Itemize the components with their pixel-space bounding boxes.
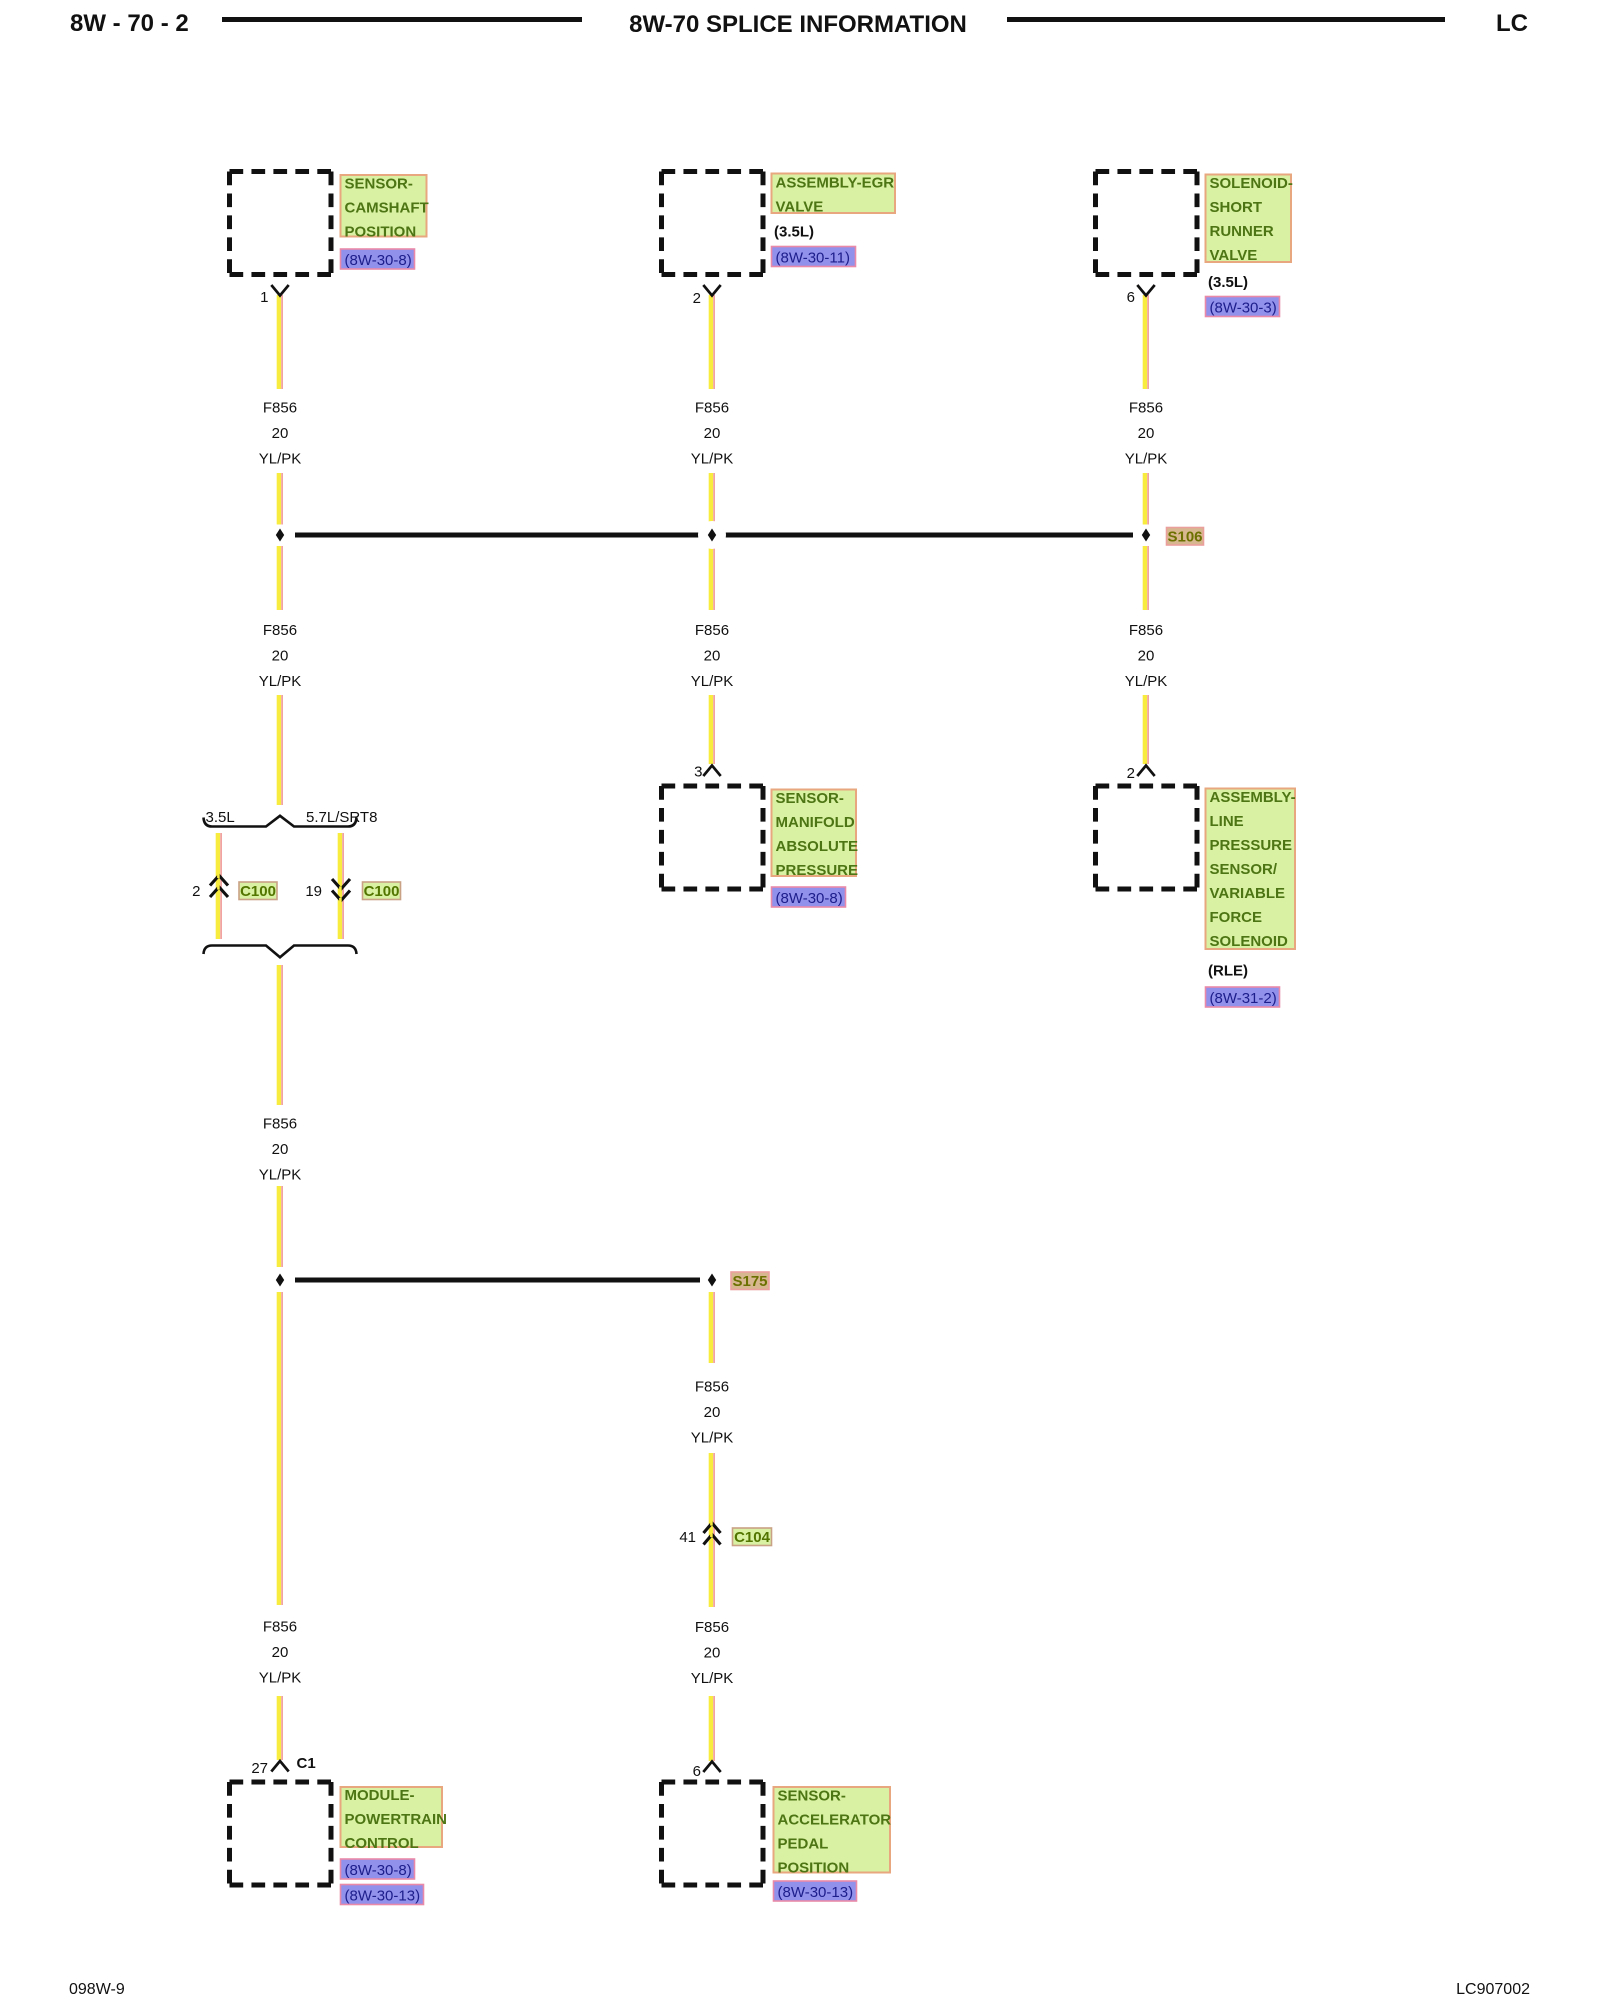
svg-text:ACCELERATOR: ACCELERATOR (778, 1812, 892, 1829)
svg-text:S175: S175 (732, 1273, 767, 1290)
svg-text:YL/PK: YL/PK (1125, 673, 1168, 690)
svg-text:C100: C100 (240, 883, 276, 900)
svg-text:(3.5L): (3.5L) (774, 224, 814, 241)
svg-text:(8W-30-8): (8W-30-8) (345, 1862, 412, 1879)
svg-text:YL/PK: YL/PK (259, 451, 302, 468)
svg-text:YL/PK: YL/PK (691, 451, 734, 468)
svg-text:POSITION: POSITION (778, 1860, 850, 1877)
svg-text:F856: F856 (263, 1116, 297, 1133)
svg-text:LINE: LINE (1210, 813, 1244, 830)
svg-text:27: 27 (251, 1760, 268, 1777)
svg-text:F856: F856 (263, 622, 297, 639)
svg-text:20: 20 (704, 1404, 721, 1421)
svg-text:2: 2 (192, 883, 200, 900)
svg-text:MODULE-: MODULE- (345, 1787, 415, 1804)
svg-text:YL/PK: YL/PK (691, 1670, 734, 1687)
svg-text:S106: S106 (1167, 529, 1202, 546)
svg-text:20: 20 (704, 425, 721, 442)
svg-text:20: 20 (272, 1644, 289, 1661)
svg-text:SOLENOID-: SOLENOID- (1210, 175, 1293, 192)
svg-text:VALVE: VALVE (776, 199, 824, 216)
svg-text:ASSEMBLY-EGR: ASSEMBLY-EGR (776, 175, 895, 192)
svg-text:SENSOR-: SENSOR- (778, 1788, 846, 1805)
svg-text:(8W-30-13): (8W-30-13) (778, 1884, 854, 1901)
svg-text:C104: C104 (734, 1529, 771, 1546)
svg-text:3.5L: 3.5L (206, 809, 235, 826)
svg-text:LC: LC (1496, 10, 1528, 37)
svg-text:(8W-30-8): (8W-30-8) (345, 252, 412, 269)
svg-text:F856: F856 (695, 400, 729, 417)
svg-text:SENSOR-: SENSOR- (776, 790, 844, 807)
svg-text:POSITION: POSITION (345, 224, 417, 241)
svg-text:CONTROL: CONTROL (345, 1835, 419, 1852)
svg-text:8W-70 SPLICE INFORMATION: 8W-70 SPLICE INFORMATION (629, 11, 967, 38)
svg-text:C100: C100 (364, 883, 400, 900)
svg-text:6: 6 (693, 1763, 701, 1780)
svg-text:(3.5L): (3.5L) (1208, 274, 1248, 291)
svg-text:F856: F856 (1129, 622, 1163, 639)
svg-text:41: 41 (679, 1529, 696, 1546)
svg-text:F856: F856 (695, 1379, 729, 1396)
svg-text:LC907002: LC907002 (1456, 1981, 1530, 1998)
svg-text:2: 2 (1127, 765, 1135, 782)
svg-text:MANIFOLD: MANIFOLD (776, 814, 855, 831)
svg-text:YL/PK: YL/PK (691, 1430, 734, 1447)
svg-text:SENSOR-: SENSOR- (345, 176, 413, 193)
svg-text:F856: F856 (695, 1619, 729, 1636)
svg-text:(8W-30-8): (8W-30-8) (776, 890, 843, 907)
svg-text:20: 20 (272, 425, 289, 442)
svg-text:ASSEMBLY-: ASSEMBLY- (1210, 789, 1296, 806)
svg-text:RUNNER: RUNNER (1210, 223, 1274, 240)
svg-text:(RLE): (RLE) (1208, 963, 1248, 980)
svg-text:20: 20 (704, 648, 721, 665)
svg-text:SENSOR/: SENSOR/ (1210, 861, 1278, 878)
svg-text:6: 6 (1127, 289, 1135, 306)
svg-text:098W-9: 098W-9 (69, 1981, 125, 1998)
svg-text:1: 1 (260, 289, 268, 306)
svg-text:ABSOLUTE: ABSOLUTE (776, 838, 859, 855)
svg-text:3: 3 (694, 764, 702, 781)
svg-text:C1: C1 (297, 1755, 316, 1772)
svg-text:(8W-30-13): (8W-30-13) (345, 1888, 421, 1905)
svg-text:8W - 70 - 2: 8W - 70 - 2 (70, 10, 189, 37)
svg-text:YL/PK: YL/PK (259, 673, 302, 690)
svg-text:CAMSHAFT: CAMSHAFT (345, 200, 429, 217)
svg-text:20: 20 (704, 1645, 721, 1662)
svg-text:2: 2 (693, 290, 701, 307)
svg-text:(8W-31-2): (8W-31-2) (1210, 990, 1277, 1007)
svg-text:20: 20 (1138, 425, 1155, 442)
svg-text:F856: F856 (695, 622, 729, 639)
svg-text:F856: F856 (263, 1619, 297, 1636)
svg-text:VARIABLE: VARIABLE (1210, 885, 1286, 902)
svg-text:SOLENOID: SOLENOID (1210, 933, 1289, 950)
svg-text:F856: F856 (263, 400, 297, 417)
svg-text:SHORT: SHORT (1210, 199, 1263, 216)
svg-text:PRESSURE: PRESSURE (1210, 837, 1293, 854)
svg-text:VALVE: VALVE (1210, 247, 1258, 264)
svg-text:POWERTRAIN: POWERTRAIN (345, 1811, 448, 1828)
svg-text:PRESSURE: PRESSURE (776, 862, 859, 879)
svg-text:YL/PK: YL/PK (691, 673, 734, 690)
svg-text:PEDAL: PEDAL (778, 1836, 829, 1853)
svg-text:19: 19 (305, 883, 322, 900)
svg-text:F856: F856 (1129, 400, 1163, 417)
svg-text:YL/PK: YL/PK (1125, 451, 1168, 468)
svg-text:20: 20 (272, 648, 289, 665)
svg-text:20: 20 (272, 1141, 289, 1158)
svg-text:FORCE: FORCE (1210, 909, 1263, 926)
svg-text:YL/PK: YL/PK (259, 1167, 302, 1184)
svg-text:YL/PK: YL/PK (259, 1670, 302, 1687)
svg-text:5.7L/SRT8: 5.7L/SRT8 (306, 809, 377, 826)
svg-text:(8W-30-11): (8W-30-11) (776, 250, 850, 267)
svg-text:20: 20 (1138, 648, 1155, 665)
svg-text:(8W-30-3): (8W-30-3) (1210, 300, 1277, 317)
